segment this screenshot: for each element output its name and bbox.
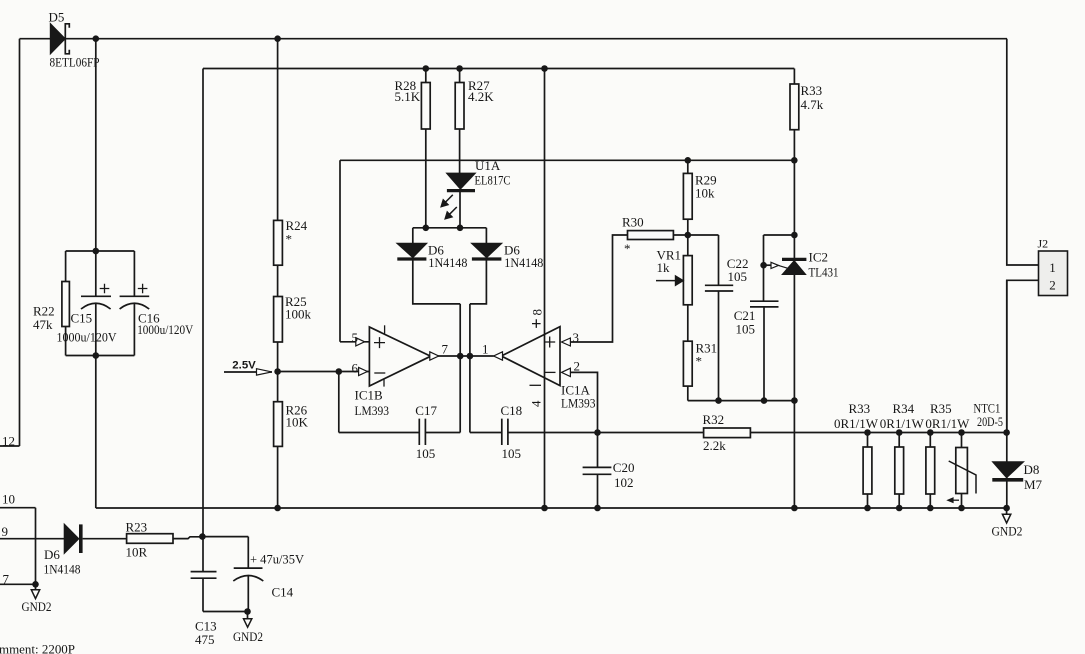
junction anode rail / U1A (457, 225, 464, 232)
junction anode rail / R28 (423, 225, 430, 232)
junction rail / IC2 branch (791, 157, 798, 164)
junction R33 / ground bus (864, 505, 871, 512)
junction bottom rail / C22 (715, 397, 722, 404)
junction V+ bus / IC pin8 feed (541, 65, 548, 72)
svg-text:R30: R30 (622, 215, 644, 230)
junction pin7 node (457, 353, 464, 360)
svg-text:C15: C15 (71, 311, 93, 326)
svg-text:1000u/120V: 1000u/120V (57, 330, 118, 345)
wire pin7 riser (459, 304, 461, 356)
svg-text:TL431: TL431 (809, 264, 839, 279)
IC1A plus input sign (544, 337, 555, 348)
wire top bus (65, 38, 1007, 40)
resistor R28 (421, 83, 430, 130)
diode D6 right (upper pair) (472, 243, 502, 257)
IC2 ref arrow (771, 262, 779, 268)
capacitor C13 (191, 571, 217, 573)
wire R34 vertical (898, 433, 900, 509)
shunt regulator IC2 TL431 (782, 258, 806, 261)
junction pin6 / C17 branch (336, 368, 343, 375)
svg-text:10k: 10k (695, 186, 715, 201)
IC1A minus input sign (545, 371, 556, 373)
svg-text:1N4148: 1N4148 (44, 562, 81, 577)
junction pin4 / ground bus (541, 505, 548, 512)
svg-text:D6: D6 (44, 547, 60, 562)
junction sense rail / R33 (864, 429, 871, 436)
svg-text:+ 47u/35V: + 47u/35V (250, 552, 305, 567)
wire VR1 bottom rail (688, 400, 795, 402)
capacitor C16 plus sign (138, 284, 148, 294)
junction C15 top (93, 248, 100, 255)
wire C15 block bottom (66, 355, 135, 357)
svg-text:LM393: LM393 (561, 396, 596, 411)
svg-text:R33: R33 (801, 83, 823, 98)
junction pin2 / sense line / C20 (594, 429, 601, 436)
pin 3 arrow (562, 338, 571, 346)
wire D6 left anode lead (412, 228, 414, 244)
svg-text:R34: R34 (893, 401, 915, 416)
svg-text:8ETL06FP: 8ETL06FP (50, 55, 100, 70)
svg-text:105: 105 (736, 322, 756, 337)
wire pin-9 stub to D6 anode (0, 538, 65, 540)
svg-text:10K: 10K (286, 415, 309, 430)
capacitor C16 leads (133, 251, 135, 356)
svg-text:GND2: GND2 (22, 599, 52, 614)
wire R30 right to C22 corner (673, 234, 718, 236)
wire box top rail (340, 159, 794, 161)
op-amp IC1B triangle (369, 327, 430, 386)
svg-text:R23: R23 (126, 520, 148, 535)
svg-text:1: 1 (482, 342, 489, 357)
capacitor C13 lower lead (202, 578, 204, 611)
svg-text:105: 105 (416, 446, 436, 461)
svg-text:0R1/1W: 0R1/1W (925, 416, 970, 431)
svg-text:12: 12 (2, 434, 15, 449)
svg-text:10: 10 (2, 492, 15, 507)
ground GND2 left (35, 584, 37, 590)
wire C18 line (470, 432, 502, 434)
svg-text:*: * (286, 232, 293, 247)
resistor R32 (704, 428, 751, 438)
connector J2 body (1039, 251, 1068, 296)
pin 1 arrow (494, 352, 503, 360)
svg-text:IC2: IC2 (809, 250, 829, 265)
junction C15 bottom (93, 352, 100, 359)
resistor R25 (274, 297, 283, 343)
wire pin1 riser (469, 304, 471, 356)
resistor R34 (895, 447, 904, 494)
svg-text:105: 105 (502, 446, 522, 461)
net flag 2.5V wire (224, 371, 272, 373)
wire C21 lower lead (763, 307, 765, 401)
wire R27 vertical upper (459, 69, 461, 174)
svg-text:7: 7 (3, 572, 10, 587)
svg-text:7: 7 (442, 342, 449, 357)
net flag 2.5V arrow (257, 369, 272, 375)
resistor R26 (274, 402, 283, 447)
junction IC2 / ground bus (791, 505, 798, 512)
resistor R29 (683, 173, 692, 219)
junction bottom rail / IC2 (791, 397, 798, 404)
svg-text:100k: 100k (285, 307, 312, 322)
wire V+ bus horizontal (203, 68, 794, 70)
NTC1 diagonal (949, 461, 976, 494)
wire C18 left riser (469, 356, 471, 433)
wire pin10 to pin7 vertical (35, 508, 37, 585)
wire C17 right riser (459, 356, 461, 433)
NTC1 foot arrow (950, 499, 960, 501)
wire R35 vertical (929, 433, 931, 509)
junction R35 / ground bus (927, 505, 934, 512)
U1A emission arrow 1 (445, 195, 453, 203)
svg-text:*: * (624, 241, 631, 256)
svg-text:5.1K: 5.1K (395, 89, 421, 104)
wire R28 vertical (425, 69, 427, 228)
wire C15 branch vertical upper (95, 39, 97, 297)
wire U1A cathode down (459, 191, 461, 228)
junction V+ bus / R27 (456, 65, 463, 72)
wire C14 top branch (202, 536, 248, 538)
IC1A power plus sign (532, 319, 541, 328)
wire D6 right anode lead (485, 228, 487, 244)
svg-text:47k: 47k (33, 317, 53, 332)
svg-text:LM393: LM393 (355, 403, 390, 418)
junction R26 bottom / ground bus (274, 505, 281, 512)
resistor R27 (455, 83, 464, 130)
junction pin7 / ground (32, 581, 39, 588)
junction D8 / ground bus end (1003, 505, 1010, 512)
wire IC2 ref (764, 264, 772, 266)
wire J2 pin2 down (1007, 280, 1039, 432)
svg-text:4: 4 (529, 400, 544, 407)
wire C22 lower lead (718, 291, 720, 401)
svg-text:C18: C18 (501, 403, 523, 418)
wire top bus left of D5 (20, 38, 52, 40)
IC1A bottom power tick (530, 384, 542, 386)
resistor R24 (274, 220, 283, 265)
svg-text:C14: C14 (272, 585, 294, 600)
resistor R23 (127, 534, 173, 544)
capacitor C15 polarized (81, 295, 111, 297)
svg-text:5: 5 (352, 330, 359, 345)
svg-text:105: 105 (728, 269, 748, 284)
svg-text:102: 102 (614, 475, 634, 490)
svg-text:*: * (696, 354, 703, 369)
wire anode rail of D6 pair (413, 227, 487, 229)
capacitor C14 lower lead (247, 576, 249, 612)
svg-text:R32: R32 (703, 412, 725, 427)
svg-text:8: 8 (530, 309, 545, 316)
junction C20 / ground bus (594, 505, 601, 512)
wire R23 to junction (173, 537, 202, 539)
junction IC2 vertical / C21 feed (791, 232, 798, 239)
resistor R31 (683, 341, 692, 386)
wire C15 block top (66, 250, 135, 252)
wire D6 cathode to R23 (83, 538, 127, 540)
svg-text:mment: 2200P: mment: 2200P (0, 642, 75, 654)
svg-text:4.2K: 4.2K (468, 89, 494, 104)
junction top bus / C15 branch (93, 35, 100, 42)
diode D5 (51, 24, 66, 54)
resistor R33 sense (863, 447, 872, 494)
svg-text:1N4148: 1N4148 (504, 255, 543, 270)
svg-text:0R1/1W: 0R1/1W (880, 416, 925, 431)
junction sense rail / R35 (927, 429, 934, 436)
IC1B bottom power tick (383, 379, 385, 386)
op-amp IC1A triangle (501, 327, 560, 386)
wire top bus corner to J2 pin1 (1007, 39, 1039, 265)
wire pin5 horizontal (340, 341, 369, 343)
resistor R22 leads (65, 251, 67, 356)
svg-text:1000u/120V: 1000u/120V (137, 322, 194, 337)
diode D6 left (upper pair) (397, 243, 426, 257)
resistor R33 4.7k (790, 84, 799, 130)
svg-text:2.5V: 2.5V (232, 360, 256, 372)
svg-text:C17: C17 (415, 403, 437, 418)
wire C15 branch vertical lower (95, 303, 97, 508)
wire R33 sense vertical (867, 433, 869, 509)
U1A emission arrow 2 (449, 207, 457, 215)
svg-text:1: 1 (1049, 260, 1056, 275)
wire IC pin8/pin4 vertical (544, 69, 546, 509)
svg-text:2: 2 (1049, 278, 1056, 293)
capacitor C15 plus sign (100, 284, 110, 294)
wire pin-10 stub (0, 507, 36, 509)
junction V+ bus / R28 (423, 65, 430, 72)
wire pin-12 stub (0, 445, 20, 447)
svg-text:4.7k: 4.7k (801, 97, 824, 112)
svg-text:R33: R33 (849, 401, 871, 416)
junction R29 bottom node (685, 232, 692, 239)
thermistor NTC1 (956, 448, 968, 494)
potentiometer VR1 (683, 256, 692, 305)
capacitor C14 polarized (234, 567, 263, 569)
svg-text:GND2: GND2 (992, 524, 1023, 539)
wire C17 line (339, 432, 460, 434)
ground GND2 middle (247, 612, 249, 619)
svg-text:2.2k: 2.2k (703, 438, 726, 453)
wire IC2 vertical (793, 69, 795, 509)
IC1B top power tick (384, 325, 386, 333)
wire D8 vertical (1006, 280, 1008, 508)
resistor R35 (926, 447, 935, 494)
junction C21 / IC2 ref (760, 262, 767, 269)
svg-text:IC1B: IC1B (355, 388, 384, 403)
wire pin-7 stub (0, 583, 36, 585)
svg-text:EL817C: EL817C (475, 173, 511, 188)
capacitor C22 (705, 285, 733, 291)
diode D6 bottom-left (64, 524, 78, 553)
wire R24 chain vertical (277, 39, 279, 508)
capacitor C17 (419, 419, 425, 445)
IC1B output arrow (430, 352, 439, 360)
capacitor C20 (583, 467, 612, 474)
svg-text:0R1/1W: 0R1/1W (834, 416, 879, 431)
junction rail / R29 (685, 157, 692, 164)
pin 2 arrow (562, 368, 571, 376)
svg-text:GND2: GND2 (233, 629, 263, 644)
svg-text:1N4148: 1N4148 (428, 255, 467, 270)
junction pin1 node (467, 353, 474, 360)
capacitor C21 (750, 301, 779, 307)
svg-text:C20: C20 (613, 460, 635, 475)
IC1B minus input sign (374, 372, 385, 374)
svg-text:475: 475 (195, 632, 215, 647)
svg-text:10R: 10R (126, 545, 148, 560)
opto LED U1A (447, 173, 475, 189)
capacitor C14 upper lead (247, 537, 249, 569)
wire pin2 to sense line (570, 372, 597, 467)
wire left vertical from pin 12 to D5 anode (19, 39, 21, 446)
wire C20 lower lead (597, 474, 599, 508)
junction 2.5V node (274, 368, 281, 375)
ground GND2 right (1006, 508, 1008, 514)
capacitor C16 polarized (120, 295, 150, 297)
wire C22 upper lead (718, 235, 720, 285)
junction C14 bottom / ground (244, 608, 251, 615)
junction NTC1 / ground bus (958, 505, 965, 512)
junction bottom rail / C21 (761, 397, 768, 404)
IC1B plus input sign (374, 337, 385, 348)
junction sense rail / D8 branch (1003, 429, 1010, 436)
svg-text:M7: M7 (1024, 477, 1043, 492)
wire bottom ground bus (96, 507, 1007, 509)
svg-text:R35: R35 (930, 401, 952, 416)
svg-text:J2: J2 (1038, 237, 1049, 251)
svg-text:2: 2 (574, 359, 581, 374)
wire D6 right cathode down (470, 259, 487, 304)
wire box-left vertical pin5 feed (339, 160, 341, 341)
pin 5 arrow (356, 338, 365, 346)
wire 2.5V node to pin6 (278, 371, 369, 373)
capacitor C18 (502, 419, 508, 445)
wire output pin7 to pin1 (438, 355, 494, 357)
capacitor C13 upper lead (202, 537, 204, 572)
diode D8 (993, 462, 1023, 478)
svg-text:20D-5: 20D-5 (977, 414, 1003, 429)
VR1 wiper arrow (656, 280, 676, 282)
junction sense rail / NTC1 (958, 429, 965, 436)
svg-text:6: 6 (352, 361, 359, 376)
wire NTC1 vertical (961, 433, 963, 509)
resistor R30 (628, 231, 674, 240)
resistor R22 (62, 282, 70, 327)
junction top bus / R24 branch (274, 35, 281, 42)
wire C17 left riser (338, 372, 340, 433)
pin 6 arrow (359, 367, 368, 375)
wire pin3 to R30 (570, 235, 627, 342)
svg-text:D5: D5 (49, 10, 65, 25)
svg-text:1k: 1k (657, 260, 671, 275)
junction R34 / ground bus (896, 505, 903, 512)
wire C13 bottom to C14 bottom (203, 611, 248, 613)
wire R29-VR1-R31 vertical (687, 160, 689, 400)
wire V+ vertical (bus2 left leg) (202, 69, 204, 537)
wire C21 upper lead (763, 235, 765, 301)
wire sense line C18 to NTC rail (508, 432, 1007, 434)
junction R23/C13/C14 node (199, 533, 206, 540)
svg-text:9: 9 (2, 524, 9, 539)
wire D6 left cathode down (413, 259, 460, 304)
junction sense rail / R34 (896, 429, 903, 436)
svg-text:D8: D8 (1024, 462, 1040, 477)
